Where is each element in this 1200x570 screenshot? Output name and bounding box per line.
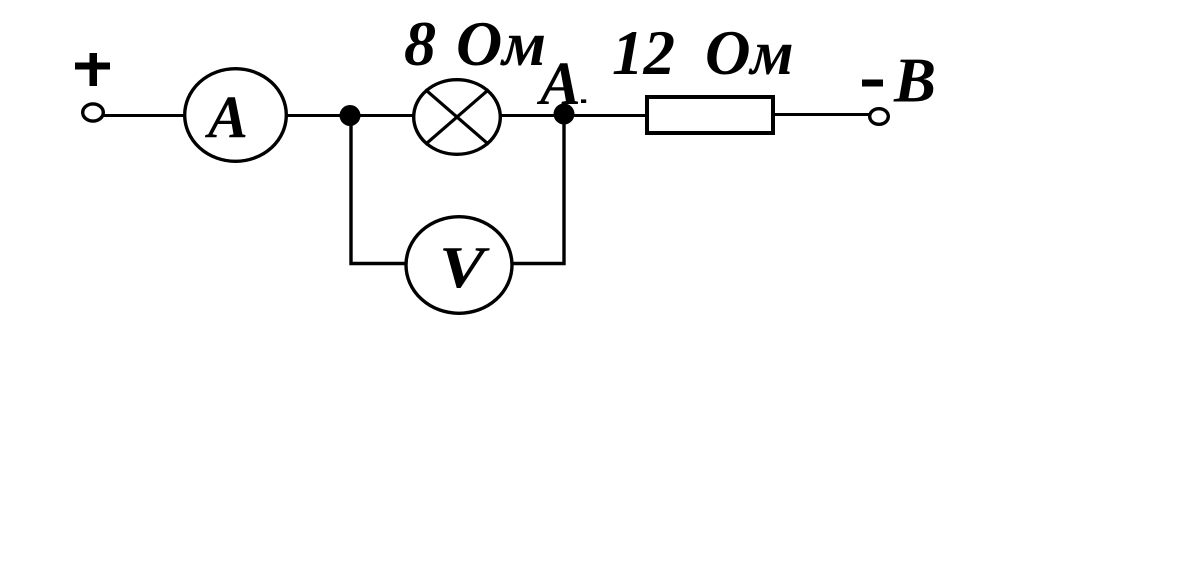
svg-text:12: 12 <box>612 18 675 88</box>
svg-text:B: B <box>893 46 936 116</box>
value label 12 Om <box>612 18 794 88</box>
svg-text:Ом: Ом <box>456 8 546 79</box>
node A (junction dot) <box>554 104 575 125</box>
svg-text:V: V <box>439 235 491 300</box>
value label 8 Om <box>404 8 546 79</box>
wire voltmeter to node A (right riser) <box>511 118 564 264</box>
wire lamp to resistor <box>500 114 647 117</box>
svg-text:Ом: Ом <box>705 18 794 88</box>
minus polarity symbol <box>862 80 883 87</box>
voltmeter V <box>406 217 512 314</box>
junction node (left) <box>340 105 361 126</box>
wire resistor to terminal B <box>775 113 870 116</box>
svg-text:8: 8 <box>404 8 436 79</box>
svg-text:A: A <box>204 84 248 150</box>
wire terminal+ to ammeter <box>103 114 184 117</box>
resistor R 12 Om <box>647 97 773 133</box>
svg-text:A: A <box>536 51 581 118</box>
ammeter A <box>185 69 287 162</box>
terminal + (open circle) <box>83 104 104 121</box>
plus polarity symbol <box>75 53 110 86</box>
node label A <box>536 51 586 118</box>
lamp EL 8 Om <box>414 80 501 155</box>
terminal B (open circle) <box>870 109 889 125</box>
wire ammeter to lamp <box>286 114 415 117</box>
wire junction-left down and across to voltmeter <box>351 120 407 264</box>
